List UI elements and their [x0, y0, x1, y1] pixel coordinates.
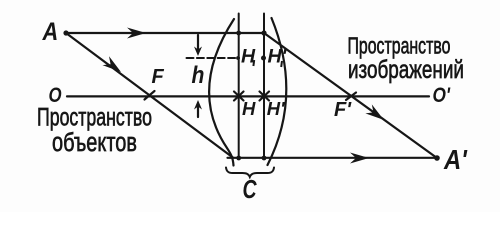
node H'1 dot	[261, 56, 266, 61]
arrowhead on ray F'-A'	[365, 104, 387, 124]
h dimension arrow shaft up	[197, 106, 199, 117]
h arrowhead pointing up	[194, 100, 202, 110]
arrowhead on lower ray	[350, 153, 369, 164]
node A' dot	[434, 155, 440, 161]
brace for distance C between principal planes	[226, 168, 274, 178]
svg-text:H': H'	[268, 46, 288, 68]
dashed level line at height h	[187, 57, 240, 59]
node H'1 entry dot on plane H' top	[261, 30, 266, 35]
svg-text:изображений: изображений	[348, 55, 464, 83]
junction dot ray on plane H top	[236, 31, 241, 36]
principal plane H vertical line	[238, 14, 240, 159]
lens left surface arc	[209, 19, 234, 166]
svg-text:A: A	[42, 18, 59, 46]
wire optical axis O-O'	[67, 95, 429, 97]
arrowhead on ray A-F	[102, 56, 124, 76]
node H1 dot on dashed line	[236, 56, 240, 60]
lens right surface arc	[268, 18, 287, 165]
svg-text:F: F	[152, 66, 165, 88]
junction dot plane H bottom	[236, 156, 241, 161]
focus F' tick mark	[346, 93, 356, 101]
wire refracted ray H'1 to A' through F'	[264, 33, 437, 158]
wire ray A through F	[66, 33, 233, 158]
node A dot	[63, 30, 68, 35]
svg-text:O': O'	[433, 85, 452, 108]
svg-text:F': F'	[334, 99, 352, 121]
wire lower ray parallel to axis toward A'	[228, 157, 438, 159]
svg-text:h: h	[192, 62, 205, 89]
svg-text:H: H	[242, 98, 256, 119]
svg-text:C: C	[243, 174, 257, 203]
principal plane H' vertical line	[263, 14, 265, 159]
arrowhead on parallel ray	[127, 28, 146, 39]
h dimension arrow shaft down	[197, 35, 199, 50]
junction dot plane H' bottom	[262, 156, 267, 161]
svg-text:объектов: объектов	[52, 127, 137, 156]
svg-text:H': H'	[267, 98, 285, 119]
principal point H' cross mark	[260, 92, 270, 101]
h arrowhead pointing down	[194, 47, 202, 57]
svg-text:A': A'	[443, 143, 468, 175]
wire ray A parallel to axis	[66, 32, 264, 34]
principal point H cross mark	[234, 92, 244, 101]
focus F tick mark	[145, 91, 155, 100]
